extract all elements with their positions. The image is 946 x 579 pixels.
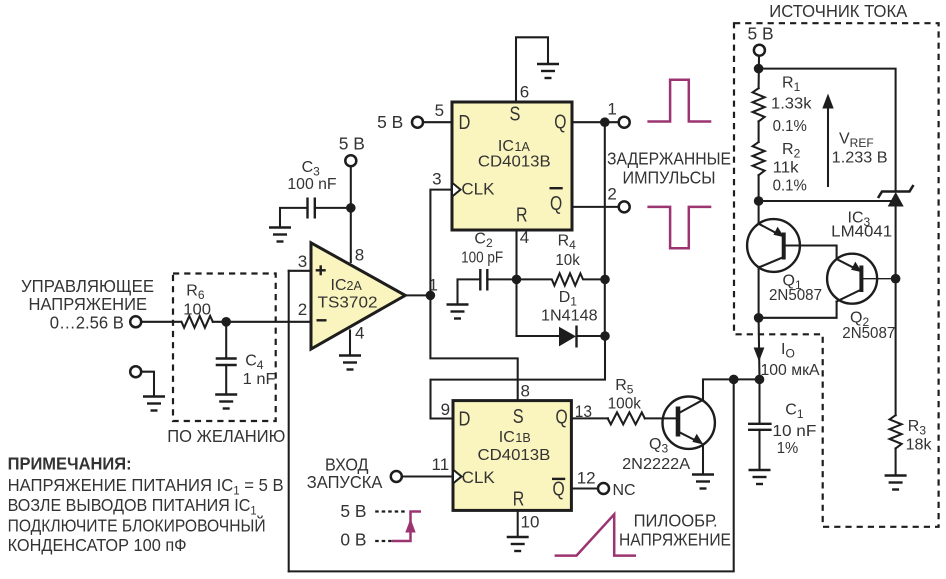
label R2 11k 0.1% <box>773 141 807 195</box>
waveform: trigger step 5V/0V <box>375 512 421 542</box>
svg-text:ЗАДЕРЖАННЫЕ: ЗАДЕРЖАННЫЕ <box>607 148 731 168</box>
label C3 100 nF <box>287 159 336 193</box>
svg-text:1%: 1% <box>777 440 799 457</box>
svg-text:5: 5 <box>435 101 444 120</box>
svg-text:6: 6 <box>520 82 529 101</box>
label − inside op-amp <box>317 319 327 321</box>
svg-text:5 В: 5 В <box>339 134 365 154</box>
svg-text:NC: NC <box>613 482 636 499</box>
capacitor C4 <box>216 359 237 366</box>
svg-text:CLK: CLK <box>462 468 495 487</box>
wire: C3 right plate to 5V junction <box>315 207 351 209</box>
ground (IC1A S) <box>537 64 559 78</box>
dashed box current source (L-shape) <box>734 23 939 527</box>
wire: C3 left plate to ground elbow <box>280 208 308 227</box>
svg-text:НАПРЯЖЕНИЕ: НАПРЯЖЕНИЕ <box>29 294 148 314</box>
svg-text:3: 3 <box>298 252 307 271</box>
wire: Q3 collector up to current node <box>703 379 760 399</box>
node junction op-amp output <box>426 291 436 301</box>
wire: terminal to D pin 5 <box>423 121 452 123</box>
svg-text:2: 2 <box>298 300 307 319</box>
wire: feedback down to bottom rail and back to op-amp pin 3 <box>289 379 734 571</box>
wire: node B to zener anode <box>759 200 896 202</box>
wire: C2 right plate to junction <box>487 278 516 280</box>
svg-text:10 nF: 10 nF <box>772 423 816 440</box>
node junction B (R2/zener/Q1 emitter) <box>754 196 764 206</box>
label Qbar (IC1A) <box>550 188 563 215</box>
wire: IC1B R pin 10 to ground <box>517 510 519 536</box>
svg-text:S: S <box>513 406 524 428</box>
svg-text:1: 1 <box>607 100 616 119</box>
wire: node B down to Q1 emitter <box>758 201 760 224</box>
node: trigger input terminal <box>391 471 402 482</box>
node junction 5V rail <box>754 64 764 74</box>
svg-text:100: 100 <box>183 302 211 319</box>
wire: D1 node down and across to IC1B D pin 9 <box>431 336 606 419</box>
label ПИЛООБР. НАПРЯЖЕНИЕ <box>619 511 731 550</box>
resistor R5 <box>608 412 645 424</box>
clock edge triangle (IC1A) <box>452 183 461 197</box>
label R1 1.33k 0.1% <box>771 75 813 136</box>
svg-text:LM4041: LM4041 <box>831 224 892 241</box>
svg-text:R2: R2 <box>782 141 801 161</box>
svg-text:11: 11 <box>432 455 450 474</box>
label Q3 2N2222A <box>622 436 690 473</box>
resistor R3 <box>890 415 902 448</box>
svg-text:13: 13 <box>575 402 592 421</box>
node junction C1 top <box>755 375 765 385</box>
capacitor C3 <box>308 198 315 219</box>
wire: op-amp pin 4 to ground <box>349 331 351 356</box>
svg-text:R3: R3 <box>908 418 927 438</box>
label IO 100 мкА <box>761 341 820 379</box>
svg-text:2N2222A: 2N2222A <box>622 456 690 473</box>
transistor Q3 2N2222A <box>663 397 715 449</box>
label: УПРАВЛЯЮЩЕЕ НАПРЯЖЕНИЕ 0…2.56 В <box>21 276 154 332</box>
wire: R2 to node B <box>758 175 760 201</box>
svg-text:C1: C1 <box>785 402 804 422</box>
label + inside op-amp <box>316 265 326 275</box>
svg-text:Q: Q <box>553 479 565 501</box>
label ВХОД ЗАПУСКА <box>307 454 383 492</box>
wire: Q3 emitter to ground <box>702 444 704 474</box>
wire: R1 to R2 <box>758 121 760 142</box>
dashed box ПО ЖЕЛАНИЮ <box>173 274 276 422</box>
node: 5V terminal (current source) <box>754 45 765 56</box>
svg-text:1 nF: 1 nF <box>243 371 276 388</box>
svg-text:0.1%: 0.1% <box>773 118 807 135</box>
flip-flop IC1A CD4013B box <box>452 102 572 230</box>
label IC1B CD4013B <box>478 429 551 464</box>
notes text block <box>8 454 284 555</box>
svg-text:D: D <box>459 112 471 134</box>
node: delayed pulse output terminal (top) <box>619 117 630 128</box>
wire: Q1 base to Q2 emitter <box>784 246 837 260</box>
wire: junction down to C4 <box>225 322 227 359</box>
capacitor C2 <box>480 269 487 291</box>
svg-text:D1: D1 <box>559 289 578 309</box>
label IC1A CD4013B <box>478 138 551 171</box>
wire: Q2 base node down to R3 <box>895 279 897 416</box>
svg-text:100k: 100k <box>608 396 642 413</box>
svg-text:ИСТОЧНИК ТОКА: ИСТОЧНИК ТОКА <box>769 1 907 21</box>
wire: IC1A S pin 6 up and to ground <box>516 37 548 102</box>
svg-text:CD4013B: CD4013B <box>478 154 551 171</box>
node: 5V supply terminal (op-amp) <box>345 155 356 166</box>
wire: IC1A Qbar pin 2 to terminal <box>572 206 619 208</box>
svg-text:3: 3 <box>432 169 441 188</box>
wire: 5V terminal to R1 <box>758 56 760 88</box>
svg-text:10: 10 <box>521 513 540 532</box>
node junction C3/5V <box>346 203 356 213</box>
svg-text:2N5087: 2N5087 <box>769 287 822 304</box>
svg-text:CD4013B: CD4013B <box>478 447 551 464</box>
svg-text:TS3702: TS3702 <box>318 295 378 312</box>
label R5 100k <box>608 377 642 413</box>
svg-text:R6: R6 <box>186 283 205 303</box>
svg-text:1N4148: 1N4148 <box>541 307 598 324</box>
svg-text:12: 12 <box>577 468 596 487</box>
wire: input terminal to R6 <box>142 321 181 323</box>
ground (C3) <box>269 228 291 242</box>
node junction C (output current) <box>754 313 764 323</box>
wire: op-amp output to junction <box>405 294 430 296</box>
capacitor C1 <box>748 424 772 430</box>
label D1 1N4148 <box>541 289 598 324</box>
ground (C1) <box>749 470 771 484</box>
label C4 1 nF <box>243 353 276 388</box>
svg-text:ПОДКЛЮЧИТЕ БЛОКИРОВОЧНЫЙ: ПОДКЛЮЧИТЕ БЛОКИРОВОЧНЫЙ <box>8 515 266 535</box>
svg-text:Q: Q <box>556 407 568 429</box>
label R6 100 <box>183 283 211 319</box>
label C2 100 pF <box>461 230 503 266</box>
svg-text:Q: Q <box>550 193 562 215</box>
node: control-voltage input terminal <box>130 316 141 327</box>
wire: R3 to ground <box>895 448 897 475</box>
svg-text:КОНДЕНСАТОР 100 пФ: КОНДЕНСАТОР 100 пФ <box>8 535 187 555</box>
transistor Q2 2N5087 <box>827 254 877 304</box>
svg-text:R: R <box>513 489 525 511</box>
wire: 5V rail to zener top <box>759 69 896 192</box>
resistor R2 <box>753 142 765 175</box>
wire: C2 left plate to ground elbow <box>458 279 481 304</box>
wire: op-amp output down to IC1B S pin 8 <box>430 295 517 400</box>
flip-flop IC1B CD4013B box <box>453 401 571 511</box>
svg-text:9: 9 <box>441 400 450 419</box>
ground (IC1B R) <box>507 537 529 551</box>
node junction R6/C4 <box>221 317 231 327</box>
wire: C1 bottom plate to ground <box>758 430 760 470</box>
wire: IC1A R pin 4 down to C2 junction <box>515 230 517 279</box>
svg-text:5 В: 5 В <box>377 112 403 132</box>
svg-text:D: D <box>459 409 471 431</box>
wire: spare terminal to ground <box>142 372 154 396</box>
svg-text:ИМПУЛЬСЫ: ИМПУЛЬСЫ <box>623 168 716 188</box>
wire: R5 to Q3 base <box>645 417 678 419</box>
svg-text:0.1%: 0.1% <box>773 178 807 195</box>
svg-text:S: S <box>510 103 521 125</box>
label Q1 2N5087 <box>769 273 822 305</box>
svg-text:5 В: 5 В <box>748 23 774 43</box>
svg-text:R5: R5 <box>615 377 634 397</box>
svg-text:IC2A: IC2A <box>331 277 363 294</box>
wire: Q1 collector down to node C <box>758 267 760 318</box>
ground (R3) <box>885 476 907 490</box>
node: 5V terminal at IC1A D <box>412 117 423 128</box>
resistor R4 <box>517 273 606 285</box>
label ЗАДЕРЖАННЫЕ ИМПУЛЬСЫ <box>607 148 731 187</box>
node: spare ground terminal <box>130 366 141 377</box>
svg-text:2: 2 <box>607 184 616 203</box>
svg-text:Q3: Q3 <box>649 436 668 456</box>
node: NC terminal <box>598 483 609 494</box>
arrow VREF <box>822 94 833 187</box>
svg-text:R4: R4 <box>558 233 577 253</box>
svg-text:НАПРЯЖЕНИЕ: НАПРЯЖЕНИЕ <box>619 529 731 549</box>
svg-text:ПРИМЕЧАНИЯ:: ПРИМЕЧАНИЯ: <box>8 454 132 474</box>
zener IC3 LM4041 <box>878 185 914 207</box>
wire: trigger terminal to IC1B CLK pin 11 <box>402 475 453 477</box>
ground (C2) <box>447 305 469 319</box>
wire: op-amp pin 3 noninverting input <box>289 270 311 272</box>
wire: C4 to ground <box>225 365 227 394</box>
svg-text:ПИЛООБР.: ПИЛООБР. <box>634 511 718 531</box>
svg-text:0 В: 0 В <box>340 530 366 550</box>
wire: to D1 anode <box>517 335 560 337</box>
node junction R4 right <box>600 275 610 285</box>
waveform: negative delayed pulse <box>647 207 711 248</box>
node junction at Q output <box>600 117 610 127</box>
svg-text:4: 4 <box>355 324 364 343</box>
wire: IC1A Q pin 1 to output terminal <box>572 121 619 123</box>
label Q2 2N5087 <box>842 310 895 343</box>
svg-text:Q: Q <box>554 111 566 133</box>
svg-text:8: 8 <box>521 382 530 401</box>
ground (op-amp pin 4) <box>339 356 361 370</box>
label IC2A TS3702 <box>318 277 378 312</box>
wire: D1 cathode to junction <box>577 335 606 337</box>
svg-text:0…2.56 В: 0…2.56 В <box>50 312 124 332</box>
label IC3 LM4041 <box>831 210 892 241</box>
svg-text:IO: IO <box>781 341 795 361</box>
node junction D1/Q line <box>600 331 610 341</box>
wire: Q2 collector down to node C <box>759 302 837 318</box>
svg-text:VREF: VREF <box>839 131 874 151</box>
wire: Q output vertical down to R4/D1 <box>604 122 606 336</box>
svg-text:18k: 18k <box>906 436 933 453</box>
transistor Q1 2N5087 <box>747 219 800 272</box>
svg-text:100 pF: 100 pF <box>461 250 503 267</box>
svg-text:R1: R1 <box>782 75 801 95</box>
svg-text:C2: C2 <box>474 230 493 250</box>
label VREF 1.233 В <box>832 131 888 167</box>
svg-text:4: 4 <box>520 228 529 247</box>
wire: 5V terminal down to op-amp pin 8 <box>350 166 352 262</box>
wire: op-amp output up to IC1A CLK pin 3 <box>430 190 452 296</box>
svg-text:1.233 В: 1.233 В <box>832 150 888 167</box>
svg-text:8: 8 <box>355 246 364 265</box>
node junction feedback tap <box>729 375 739 385</box>
wire: R6 to op-amp inverting input pin 2 <box>213 321 311 323</box>
svg-text:IC1A: IC1A <box>498 138 531 155</box>
wire: Q2 base to node <box>861 278 895 280</box>
label R3 18k <box>906 418 933 453</box>
ground (spare terminal) <box>143 397 165 411</box>
resistor R6 <box>182 316 213 328</box>
svg-text:C4: C4 <box>245 353 264 373</box>
label Qbar (IC1B) <box>552 479 565 501</box>
svg-text:R: R <box>516 205 528 227</box>
svg-text:1.33k: 1.33k <box>771 95 813 112</box>
arrow IO <box>754 348 765 362</box>
svg-text:5 В: 5 В <box>340 501 366 521</box>
node: delayed pulse output terminal (bottom) <box>619 201 630 212</box>
wire: IC1B Qbar pin 12 to NC <box>571 487 597 489</box>
resistor R1 <box>753 88 765 121</box>
svg-text:2N5087: 2N5087 <box>842 325 895 342</box>
waveform: positive delayed pulse <box>647 80 711 122</box>
svg-text:11k: 11k <box>773 159 800 176</box>
label C1 10 nF 1% <box>772 402 816 458</box>
svg-text:ЗАПУСКА: ЗАПУСКА <box>307 472 383 492</box>
node junction Q2 base <box>891 274 901 284</box>
waveform: sawtooth <box>555 514 636 555</box>
svg-text:10k: 10k <box>555 252 580 269</box>
svg-text:CLK: CLK <box>461 180 494 199</box>
wire: D1 branch down from C2 junction <box>515 279 517 336</box>
svg-text:100 мкА: 100 мкА <box>761 362 820 379</box>
wire: IC1B Q pin 13 to R5 <box>571 417 608 419</box>
svg-text:ПО ЖЕЛАНИЮ: ПО ЖЕЛАНИЮ <box>167 426 285 446</box>
wire: C1 top node down to plate <box>758 379 760 423</box>
ground (C4) <box>215 395 237 409</box>
ground (Q3 emitter) <box>692 475 714 489</box>
node junction pin4/C2/R4/D1 <box>512 275 522 285</box>
wire: feedback vertical from pin 3 down to bottom rail <box>288 271 290 572</box>
wire: zener anode down to Q2 base node <box>895 207 897 279</box>
diode D1 1N4148 <box>559 326 577 348</box>
clock edge triangle (IC1B) <box>453 470 462 484</box>
wire: node C down to C1 node with IO arrow <box>758 318 761 380</box>
op-amp U: IC2A TS3702 triangle <box>311 243 405 349</box>
label R4 10k <box>555 233 580 269</box>
svg-text:100 nF: 100 nF <box>287 176 336 193</box>
svg-text:IC1B: IC1B <box>499 429 531 446</box>
